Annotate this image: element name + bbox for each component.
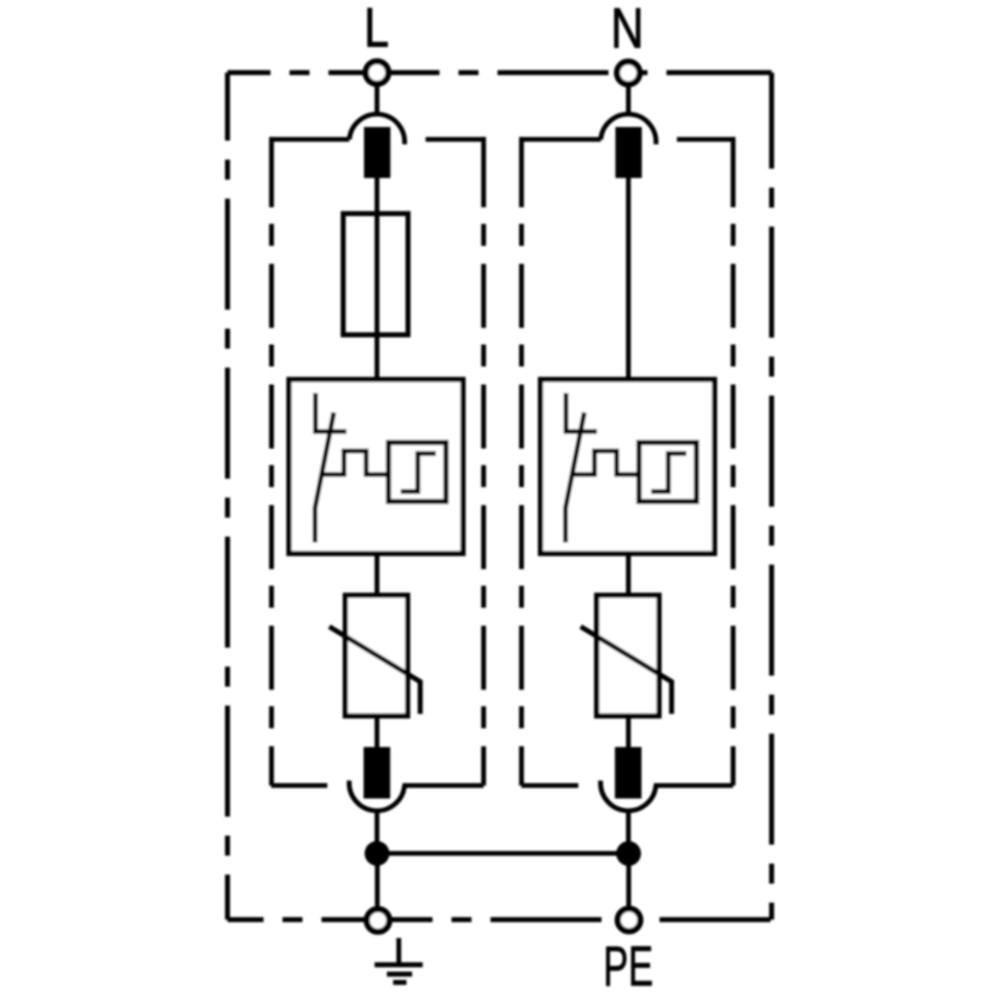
signalling pulse line (N branch) xyxy=(572,451,639,475)
plug-in contact pin top (N branch) xyxy=(615,127,641,178)
wire L branch (bottom plug to PE node) xyxy=(375,810,380,854)
wire L branch (terminal L to top plug contact) xyxy=(375,86,380,115)
ground symbol stem xyxy=(396,938,401,963)
disconnector switch symbol (L branch) xyxy=(313,393,347,543)
plug-in contact pin top (L branch) xyxy=(364,127,390,178)
signalling contact box (N branch) xyxy=(639,443,697,502)
wire N branch (varistor to bottom plug) xyxy=(626,716,631,748)
plug-in contact pin bottom (L branch) xyxy=(364,747,391,799)
wire L branch (top plug contact through fuse to disconnector box) xyxy=(375,178,380,380)
plug-in contact arc bottom (N branch) xyxy=(601,781,656,811)
plug-in contact arc top (N branch) xyxy=(601,114,656,144)
inner dashed module box (L branch) bottom edge xyxy=(271,783,483,788)
junction node dot (N to PE bus) xyxy=(616,841,641,866)
wire PE bus between branches xyxy=(377,851,629,856)
disconnector switch symbol (N branch) xyxy=(564,393,598,543)
inner dashed module box (L branch) left edge xyxy=(269,137,274,144)
step symbol inside signalling box (L branch) xyxy=(401,454,436,492)
svg-text:N: N xyxy=(611,0,644,61)
wire N branch (terminal N to top plug contact) xyxy=(626,86,631,115)
junction node dot (L to PE bus) xyxy=(365,841,390,866)
inner dashed module box (L branch) top edge xyxy=(272,137,484,142)
wire N branch (node to PE terminal) xyxy=(626,854,631,907)
plug-in contact pin bottom (N branch) xyxy=(615,747,642,799)
terminal N xyxy=(617,62,640,85)
terminal L xyxy=(366,61,389,84)
outer dash-dot device boundary top edge xyxy=(228,70,772,75)
plug-in contact arc bottom (L branch) xyxy=(349,781,404,811)
ground symbol bar 3 xyxy=(393,980,406,985)
inner dashed module box (N branch) left edge xyxy=(519,137,524,144)
varistor RV1 diagonal stroke xyxy=(329,627,420,714)
wire N branch (top plug contact to disconnector box) xyxy=(626,178,631,380)
wire L branch (disconnector to varistor) xyxy=(375,554,380,596)
inner dashed module box (N branch) top edge xyxy=(522,137,734,142)
varistor RV2 (N branch) body xyxy=(597,595,659,716)
inner dashed module box (N branch) bottom edge xyxy=(521,783,733,788)
wire N branch (disconnector to varistor) xyxy=(626,554,631,596)
inner dashed module box (N branch) right edge xyxy=(731,137,736,144)
outer dash-dot device boundary bottom edge xyxy=(228,917,772,922)
signalling pulse line (L branch) xyxy=(322,451,389,475)
wire N branch (bottom plug to PE node) xyxy=(626,810,631,854)
terminal PE left xyxy=(367,909,390,932)
ground symbol bar 2 xyxy=(387,972,412,977)
svg-text:L: L xyxy=(364,0,389,59)
terminal PE right xyxy=(618,909,641,932)
signalling contact box (L branch) xyxy=(389,443,447,502)
svg-text:PE: PE xyxy=(603,934,653,998)
thermal disconnector with signalling U2 (N branch) box xyxy=(541,380,715,554)
outer dash-dot device boundary right edge xyxy=(769,73,774,920)
plug-in contact arc top (L branch) xyxy=(349,114,404,144)
wire L branch (node to PE terminal) xyxy=(375,853,380,906)
varistor RV1 (L branch) body xyxy=(345,595,407,716)
ground symbol bar 1 xyxy=(375,962,423,967)
step symbol inside signalling box (N branch) xyxy=(651,454,686,492)
fuse F1 (L branch backup fuse) xyxy=(343,214,408,335)
varistor RV2 diagonal stroke xyxy=(581,627,672,714)
inner dashed module box (L branch) right edge xyxy=(481,137,486,144)
thermal disconnector with signalling U1 (L branch) box xyxy=(289,380,463,554)
outer dash-dot device boundary left edge xyxy=(225,73,230,920)
wire L branch (varistor to bottom plug) xyxy=(375,716,380,748)
